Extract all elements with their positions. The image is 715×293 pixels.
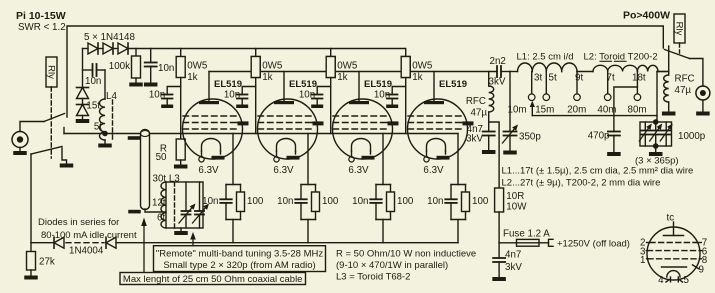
- svg-text:EL519: EL519: [364, 79, 392, 90]
- svg-text:Rly: Rly: [46, 65, 57, 79]
- heater ground (tube 1): [212, 156, 225, 160]
- svg-text:47µ: 47µ: [675, 85, 692, 96]
- label 100k: [109, 61, 130, 72]
- cathode lead (tube 3): [382, 134, 384, 185]
- label 4n7 psu: [505, 250, 521, 261]
- label 10n grid 2: [224, 90, 240, 101]
- diode 1N4004 a: [54, 237, 64, 248]
- svg-text:0W5: 0W5: [337, 61, 358, 72]
- svg-text:3kV: 3kV: [505, 262, 522, 273]
- tap contact 15m: [543, 72, 550, 101]
- svg-text:SWR < 1.2: SWR < 1.2: [18, 22, 66, 33]
- svg-text:Small type 2 × 320p (from AM r: Small type 2 × 320p (from AM radio): [163, 260, 315, 271]
- wire L4 top: [104, 70, 106, 99]
- svg-text:15m: 15m: [535, 105, 554, 116]
- note box remote tuning: [154, 246, 326, 272]
- cathode lead (tube 4): [457, 134, 459, 185]
- resistor body cover 2: [251, 57, 260, 78]
- wire anode bus: [209, 71, 497, 73]
- svg-text:Po>400W: Po>400W: [623, 10, 670, 22]
- svg-text:20m: 20m: [567, 105, 586, 116]
- heater ground (tube 3): [362, 156, 375, 160]
- pinout pin 9: [693, 265, 704, 276]
- cathode RC network (tube 3): [370, 185, 394, 243]
- svg-text:100k: 100k: [109, 61, 130, 72]
- heater (tube 2): [277, 139, 296, 157]
- label EL519 1: [214, 79, 242, 90]
- node 1000p bottom: [653, 143, 659, 149]
- label 5t: [549, 73, 557, 84]
- label 10n grid 4: [374, 90, 390, 101]
- svg-text:L2: Toroid T200-2: L2: Toroid T200-2: [584, 51, 658, 62]
- capacitor variable 350p: [503, 72, 519, 155]
- label EL519 4: [439, 79, 467, 90]
- screen ground (tube 1): [237, 121, 249, 125]
- capacitor 10n grid (tube 4): [386, 87, 406, 109]
- wire pi output node: [656, 72, 658, 123]
- label 9t: [575, 73, 583, 84]
- svg-text:47µ: 47µ: [470, 108, 487, 119]
- pinout cathode: [662, 266, 687, 268]
- grid g2 dashed (tube 1): [183, 122, 237, 124]
- svg-text:L4: L4: [106, 91, 117, 102]
- ground clamp diodes: [76, 116, 90, 124]
- pinout pin 4: [658, 275, 669, 286]
- relay switch arm (bias): [31, 147, 62, 155]
- inductor L3: [161, 182, 166, 228]
- wire bias line right: [116, 242, 458, 244]
- svg-text:100: 100: [472, 196, 489, 207]
- svg-text:L2...27t (± 9µ), T200-2, 2 mm: L2...27t (± 9µ), T200-2, 2 mm dia wire: [502, 177, 661, 188]
- diode 1N4148 b: [103, 43, 113, 54]
- svg-text:6t: 6t: [157, 213, 165, 224]
- label EL519 2: [289, 79, 317, 90]
- resistor body cover 4: [401, 57, 410, 78]
- svg-text:Diodes in series for: Diodes in series for: [38, 217, 119, 228]
- output connector ground: [696, 100, 710, 116]
- label 18t: [632, 73, 646, 84]
- svg-text:9t: 9t: [575, 73, 583, 84]
- svg-text:L3 = Toroid T68-2: L3 = Toroid T68-2: [336, 272, 410, 283]
- svg-text:10n: 10n: [85, 76, 101, 87]
- choke RFC 47u output: [657, 72, 675, 116]
- tap contact 20m: [574, 72, 581, 101]
- ground coax top: [128, 136, 141, 140]
- svg-text:5 × 1N4148: 5 × 1N4148: [84, 32, 135, 43]
- resistor 0W5 1k (tube 2): [251, 49, 260, 134]
- label 6.3V 4: [423, 165, 444, 176]
- core dashed line L4: [112, 100, 114, 140]
- relay actuation dashed link (output): [679, 43, 681, 53]
- input connector stub: [20, 122, 44, 132]
- note L1 turns: [502, 165, 694, 176]
- ground 1000p: [649, 146, 663, 156]
- wire: [98, 48, 103, 50]
- svg-text:10W: 10W: [506, 202, 527, 213]
- note L2 turns: [502, 177, 661, 188]
- diode 1N4148 d (clamp upper): [77, 88, 89, 99]
- svg-text:350p: 350p: [519, 132, 541, 143]
- svg-text:1k: 1k: [187, 72, 197, 83]
- screen ground (tube 4): [462, 121, 474, 125]
- relay actuation dashed link (input): [50, 87, 52, 158]
- heater (tube 1): [202, 139, 221, 157]
- relay switch arm (output): [665, 50, 690, 59]
- svg-text:80-100 mA idle current: 80-100 mA idle current: [41, 230, 137, 241]
- svg-text:4: 4: [658, 275, 664, 286]
- capacitor 10n grid (tube 3): [311, 87, 331, 109]
- label 10R: [506, 191, 524, 202]
- wire pi out to relay contact: [668, 46, 670, 72]
- label 6.3V 2: [273, 165, 294, 176]
- label 10n: [85, 76, 101, 87]
- label 0W5 2: [262, 61, 283, 72]
- note diodes in series: [38, 217, 119, 228]
- svg-text:27k: 27k: [39, 257, 55, 268]
- label 6t: [157, 213, 165, 224]
- note R parallel: [336, 260, 448, 271]
- screen ground (tube 3): [387, 121, 399, 125]
- pinout grid rows: [648, 243, 700, 259]
- variable capacitor 365p 2: [650, 122, 663, 146]
- label 27k: [39, 257, 55, 268]
- screen ground (tube 2): [312, 121, 324, 125]
- svg-text:1000p: 1000p: [678, 131, 706, 142]
- variable capacitor 365p 3: [660, 122, 673, 146]
- label 10n cathode 1: [202, 196, 218, 207]
- grid g3 dashed (tube 4): [408, 115, 462, 117]
- label 3t: [534, 73, 542, 84]
- relay coil Rly (input): [46, 57, 57, 87]
- svg-text:100: 100: [322, 196, 339, 207]
- pinout pin 8: [699, 255, 707, 266]
- svg-text:Pi 10-15W: Pi 10-15W: [16, 10, 66, 22]
- svg-text:470p: 470p: [588, 131, 610, 142]
- fuse 1.2A: [499, 239, 548, 246]
- label 1N4004: [69, 246, 104, 257]
- grid g2 dashed (tube 3): [333, 122, 387, 124]
- cathode lead (tube 2): [307, 134, 309, 185]
- label 3kV: [489, 77, 506, 88]
- svg-text:10n: 10n: [158, 63, 174, 74]
- svg-text:Fuse 1.2 A: Fuse 1.2 A: [503, 229, 550, 240]
- input connector ground: [13, 148, 27, 156]
- tap contact 40m: [604, 72, 611, 101]
- wire: [113, 48, 118, 50]
- pinout pin 1: [640, 255, 649, 266]
- svg-text:RFC: RFC: [675, 74, 695, 85]
- svg-text:10n: 10n: [202, 196, 218, 207]
- grid g2 dashed (tube 4): [408, 122, 462, 124]
- svg-text:Max lenght of 25 cm 50 Ohm coa: Max lenght of 25 cm 50 Ohm coaxial cable: [123, 274, 303, 285]
- tube EL519 envelope U2: [258, 99, 318, 159]
- label 40m: [597, 105, 616, 116]
- grid g1 dashed (tube 4): [408, 128, 462, 130]
- svg-text:RFC: RFC: [466, 96, 486, 107]
- grid g1 dashed (tube 2): [258, 128, 312, 130]
- label 12t: [152, 198, 166, 209]
- svg-text:9: 9: [699, 265, 704, 276]
- label 10n cathode 2: [277, 196, 293, 207]
- svg-text:(9-10 × 470/1W in parallel): (9-10 × 470/1W in parallel): [336, 260, 448, 271]
- choke RFC 47u anode: [489, 72, 494, 123]
- ground tuning box: [174, 228, 188, 235]
- note L3 toroid: [336, 272, 410, 283]
- label 100 cathode 2: [322, 196, 339, 207]
- label 1k 2: [262, 72, 272, 83]
- svg-text:+1250V (off load): +1250V (off load): [557, 238, 630, 249]
- heater terminal (tube 2): [274, 157, 279, 162]
- label 0W5 4: [412, 61, 433, 72]
- wire bypass line input-relay to output-relay: [67, 26, 663, 117]
- svg-text:30t L3: 30t L3: [153, 173, 181, 184]
- resistor body cover 3: [326, 57, 335, 78]
- svg-text:3t: 3t: [534, 73, 542, 84]
- anode (tube 1): [199, 72, 219, 105]
- label 10n: [158, 63, 174, 74]
- variable capacitor B: [193, 182, 210, 228]
- svg-text:0W5: 0W5: [262, 61, 283, 72]
- capacitor 4n7 3kV anode: [482, 122, 496, 154]
- tap contact 10m: [528, 72, 535, 101]
- label +1250V: [557, 238, 630, 249]
- resistor 0W5 1k (tube 1): [176, 49, 185, 134]
- label 100 cathode 3: [397, 196, 414, 207]
- inductor L4 5t section: [100, 132, 105, 144]
- label 7t: [607, 73, 615, 84]
- label 1k 4: [412, 72, 422, 83]
- svg-text:Rly: Rly: [674, 22, 685, 36]
- tube EL519 envelope U3: [333, 99, 393, 159]
- wire grid bus: [128, 48, 405, 50]
- svg-text:10n: 10n: [352, 196, 368, 207]
- svg-text:L1: 2.5 cm i/d: L1: 2.5 cm i/d: [517, 51, 574, 62]
- tube EL519 envelope U4: [408, 99, 468, 159]
- capacitor 10n grid (tube 2): [236, 87, 256, 109]
- svg-text:100: 100: [397, 196, 414, 207]
- grid g3 dashed (tube 2): [258, 115, 312, 117]
- label EL519 3: [364, 79, 392, 90]
- variable capacitor A: [179, 182, 196, 228]
- svg-text:5t: 5t: [94, 122, 102, 133]
- svg-text:5: 5: [684, 275, 690, 286]
- anode (tube 2): [274, 72, 294, 105]
- coax cable 25cm (cylinder): [141, 130, 150, 210]
- grid g1 dashed (tube 1): [183, 128, 237, 130]
- tap contact 80m: [634, 72, 641, 101]
- title Po>400W: [623, 10, 670, 22]
- label 100 cathode 4: [472, 196, 489, 207]
- label RFC output: [675, 74, 695, 85]
- svg-text:50: 50: [156, 152, 167, 163]
- label 0W5 1: [187, 61, 208, 72]
- ground L4: [98, 144, 112, 148]
- relay switch arm (input RF): [44, 114, 65, 122]
- svg-text:0W5: 0W5: [412, 61, 433, 72]
- heater ground (tube 4): [437, 156, 450, 160]
- annotation arrow remote box: [190, 232, 196, 246]
- node L4 tap 5t: [102, 131, 108, 137]
- svg-text:3kV: 3kV: [466, 134, 483, 145]
- label 100 cathode 1: [247, 196, 264, 207]
- label 5t: [94, 122, 102, 133]
- label 10n grid 1: [149, 90, 165, 101]
- wire bias line: [31, 242, 54, 244]
- wire RFC to 10R: [489, 122, 499, 188]
- heater terminal (tube 3): [349, 157, 354, 162]
- label 3x365p: [635, 156, 679, 167]
- svg-text:10R: 10R: [506, 191, 524, 202]
- diode 1N4004 b: [106, 237, 116, 248]
- relay contact stub (input, TX): [63, 128, 65, 134]
- svg-text:10n: 10n: [427, 196, 443, 207]
- svg-text:1k: 1k: [337, 72, 347, 83]
- terminal +1250V: [549, 239, 554, 246]
- svg-text:10n: 10n: [299, 90, 315, 101]
- label 10n cathode 4: [427, 196, 443, 207]
- label 10W: [506, 202, 527, 213]
- pinout pin 3: [640, 246, 648, 257]
- anode (tube 3): [349, 72, 369, 105]
- svg-text:80m: 80m: [628, 105, 647, 116]
- resistor 100k: [129, 49, 143, 87]
- grid g1 dashed (tube 3): [333, 128, 387, 130]
- output coax connector: [696, 86, 710, 100]
- svg-text:6.3V: 6.3V: [423, 165, 444, 176]
- wire: [82, 99, 84, 105]
- capacitor bank 1000p box: [640, 122, 672, 146]
- label 3kV psu: [505, 262, 522, 273]
- label 15t: [86, 101, 100, 112]
- svg-text:10n: 10n: [149, 90, 165, 101]
- label R: [160, 144, 167, 155]
- svg-text:15t: 15t: [86, 101, 100, 112]
- svg-text:1k: 1k: [412, 72, 422, 83]
- title Pi 10-15W: [16, 10, 66, 22]
- svg-text:18t: 18t: [632, 73, 646, 84]
- capacitor 10n coupling: [83, 64, 106, 76]
- grid g3 dashed (tube 1): [183, 115, 237, 117]
- subtitle SWR: [18, 22, 66, 33]
- svg-text:EL519: EL519: [214, 79, 242, 90]
- pinout pin 2: [640, 237, 649, 248]
- label 47u anode: [470, 108, 487, 119]
- svg-text:4n7: 4n7: [505, 250, 521, 261]
- variable capacitor 365p 1: [639, 122, 652, 146]
- wire dashed omitted diodes: [66, 242, 104, 244]
- ground coax bottom: [128, 210, 141, 214]
- label 6.3V 3: [348, 165, 369, 176]
- note idle current: [41, 230, 137, 241]
- inductor L1: [510, 63, 593, 72]
- note R definition: [336, 249, 476, 260]
- core dashed line L3: [174, 182, 176, 228]
- label 10n cathode 3: [352, 196, 368, 207]
- label L4: [106, 91, 117, 102]
- note box max length: [120, 273, 306, 285]
- label 5 x 1N4148: [84, 32, 135, 43]
- heater terminal (tube 1): [199, 157, 204, 162]
- tuning box outline: [166, 182, 203, 228]
- cathode lead (tube 1): [232, 134, 234, 185]
- label 80m: [628, 105, 647, 116]
- pinout pin 5: [679, 275, 690, 286]
- label L2 dims: [584, 51, 658, 62]
- label 1k 1: [187, 72, 197, 83]
- diode 1N4148 a: [88, 43, 98, 54]
- svg-text:6.3V: 6.3V: [273, 165, 294, 176]
- svg-text:100: 100: [247, 196, 264, 207]
- label 2n2: [490, 56, 506, 67]
- label 10n grid 3: [299, 90, 315, 101]
- relay bias pole wire: [30, 154, 32, 243]
- input coax connector: [12, 132, 28, 148]
- svg-text:"Remote" multi-band tuning 3.5: "Remote" multi-band tuning 3.5-28 MHz: [156, 249, 324, 260]
- wire relay to output connector: [690, 59, 703, 87]
- node 1000p top: [653, 119, 659, 125]
- label 470p: [588, 131, 610, 142]
- relay coil Rly (output): [674, 14, 685, 43]
- wire 470p to 18t tap: [614, 87, 638, 132]
- capacitor 470p: [607, 132, 621, 157]
- tube EL519 envelope U1: [183, 99, 243, 159]
- svg-text:6.3V: 6.3V: [348, 165, 369, 176]
- label 47u output: [675, 85, 692, 96]
- label 20m: [567, 105, 586, 116]
- label 1k 3: [337, 72, 347, 83]
- wire grid bus left corner: [83, 49, 89, 88]
- label 350p: [519, 132, 541, 143]
- inductor L4 15t section: [99, 99, 105, 132]
- pinout pin 7: [698, 237, 708, 248]
- svg-text:R = 50 Ohm/10 W non inductieve: R = 50 Ohm/10 W non inductieve: [336, 249, 476, 260]
- capacitor 10n grid (tube 1): [161, 87, 181, 109]
- label L1 dims: [517, 51, 574, 62]
- resistor 10R 10W: [495, 188, 504, 243]
- wire coax to L3: [145, 209, 166, 212]
- heater terminal (tube 4): [424, 157, 429, 162]
- svg-text:EL519: EL519: [289, 79, 317, 90]
- heater (tube 3): [352, 139, 371, 157]
- label 30t L3: [153, 173, 181, 184]
- svg-text:10n: 10n: [374, 90, 390, 101]
- label 10m: [508, 105, 527, 116]
- anode (tube 4): [424, 72, 444, 105]
- resistor 0W5 1k (tube 4): [401, 49, 410, 134]
- label 4n7 anode: [467, 124, 483, 135]
- cathode RC network (tube 1): [220, 185, 244, 243]
- resistor 0W5 1k (tube 3): [326, 49, 335, 134]
- label 50: [156, 152, 167, 163]
- svg-text:6.3V: 6.3V: [198, 165, 219, 176]
- svg-text:1N4004: 1N4004: [69, 246, 104, 257]
- capacitor 2n2 coupling: [497, 66, 510, 77]
- relay contact to ground (RX bias): [60, 148, 74, 168]
- diode 1N4148 c: [118, 43, 128, 54]
- heater (tube 4): [427, 139, 446, 157]
- svg-text:0W5: 0W5: [187, 61, 208, 72]
- svg-text:1k: 1k: [262, 72, 272, 83]
- svg-text:1: 1: [640, 255, 645, 266]
- label 3kV anode: [466, 134, 483, 145]
- svg-text:L1...17t (± 1.5µ), 2.5 cm dia,: L1...17t (± 1.5µ), 2.5 cm dia, 2.5 mm² d…: [502, 165, 694, 176]
- capacitor 10n grid bus: [144, 49, 158, 87]
- svg-text:EL519: EL519: [439, 79, 467, 90]
- pinout tube envelope: [647, 227, 700, 280]
- grid g3 dashed (tube 3): [333, 115, 387, 117]
- label 6.3V 1: [198, 165, 219, 176]
- svg-text:10n: 10n: [224, 90, 240, 101]
